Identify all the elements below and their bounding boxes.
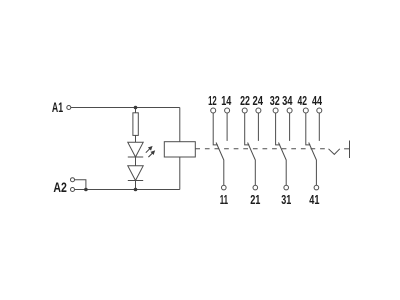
svg-text:41: 41 — [309, 192, 319, 207]
svg-text:14: 14 — [221, 93, 232, 108]
svg-text:12: 12 — [208, 93, 217, 108]
svg-text:21: 21 — [250, 192, 260, 207]
svg-text:31: 31 — [281, 192, 291, 207]
svg-text:32: 32 — [270, 93, 280, 108]
svg-text:A1: A1 — [52, 100, 64, 115]
svg-text:34: 34 — [282, 93, 293, 108]
svg-text:11: 11 — [220, 192, 228, 207]
svg-text:42: 42 — [298, 93, 308, 108]
svg-text:44: 44 — [312, 93, 323, 108]
svg-text:A2: A2 — [53, 180, 67, 195]
svg-text:22: 22 — [240, 93, 250, 108]
svg-text:24: 24 — [253, 93, 264, 108]
